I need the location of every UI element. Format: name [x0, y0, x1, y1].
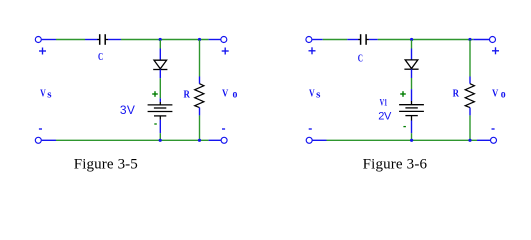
wire (resistor branch top, green)	[469, 40, 471, 77]
label R (resistor)	[184, 89, 191, 101]
wire (diode branch top, green)	[411, 40, 413, 49]
wire (top rail middle, green)	[378, 39, 474, 41]
wire (diode to battery, green)	[159, 78, 161, 98]
wire (resistor to bottom rail, green)	[199, 115, 201, 140]
junction (bottom, diode branch)	[410, 139, 413, 142]
svg-text:V1: V1	[380, 98, 388, 108]
label - (bottom-right)	[492, 128, 495, 130]
wire (battery to bottom rail, green)	[159, 133, 161, 140]
label + (battery positive, green)	[400, 91, 406, 97]
wire (diode branch top, green)	[159, 40, 161, 49]
terminal (top-left, Vs +)	[35, 37, 56, 43]
svg-text:V: V	[309, 87, 315, 99]
wire (diode cathode pin, blue)	[159, 70, 161, 79]
svg-text:3V: 3V	[120, 103, 135, 117]
label - (bottom-left)	[39, 128, 42, 130]
label - (battery negative, green)	[403, 126, 406, 128]
svg-text:C: C	[358, 52, 363, 64]
wire (top rail left, terminal to capacitor)	[56, 39, 85, 41]
wire (resistor top pin, blue)	[199, 77, 201, 84]
svg-text:2V: 2V	[378, 111, 392, 123]
wire (battery top pin, blue)	[159, 98, 161, 102]
label + (top-left)	[309, 47, 316, 54]
wire (capacitor right pin, blue)	[108, 39, 121, 41]
label + (top-right)	[222, 48, 229, 55]
terminal (bottom-right, Vo -)	[221, 137, 227, 143]
wire (top rail middle, cap to output stub)	[121, 39, 209, 41]
node Vs (input label)	[309, 87, 321, 100]
diode D2	[404, 60, 418, 69]
capacitor C2	[358, 34, 369, 45]
junction (bottom, resistor branch)	[468, 139, 471, 142]
wire (top-right terminal pin, blue)	[473, 39, 489, 41]
junction (top, diode branch)	[159, 38, 162, 41]
svg-text:s: s	[316, 88, 321, 100]
wire (resistor bottom pin, blue)	[199, 108, 201, 116]
terminal (bottom-right, Vo -)	[491, 137, 497, 143]
svg-text:Figure 3-6: Figure 3-6	[363, 157, 428, 173]
wire (diode anode pin, blue)	[159, 49, 161, 61]
svg-text:V: V	[222, 87, 228, 99]
wire (diode cathode pin, blue)	[411, 69, 413, 78]
label - (bottom-right)	[222, 128, 225, 130]
resistor R2	[465, 84, 474, 108]
junction (bottom, diode branch)	[159, 139, 162, 142]
label C (capacitor value)	[98, 51, 103, 63]
label + (battery positive, green)	[152, 91, 158, 97]
wire (top rail left, green)	[323, 39, 348, 41]
svg-text:R: R	[453, 87, 460, 99]
wire (capacitor left pin, blue)	[347, 39, 358, 41]
wire (diode to battery, green)	[411, 78, 413, 89]
svg-text:V: V	[492, 87, 498, 99]
label 3V (battery value)	[120, 103, 135, 117]
svg-text:R: R	[184, 89, 191, 101]
wire (resistor branch top, green)	[199, 40, 201, 77]
wire (resistor to bottom rail, green)	[469, 115, 471, 140]
node Vo (output label)	[492, 87, 506, 100]
svg-text:Figure 3-5: Figure 3-5	[74, 157, 138, 173]
caption Figure 3-6	[363, 157, 428, 173]
terminal (top-right, Vo +)	[490, 37, 496, 43]
caption Figure 3-5	[74, 157, 138, 173]
battery V1 (2V source)	[399, 101, 424, 121]
svg-text:C: C	[98, 51, 103, 63]
wire (battery to bottom rail, green)	[411, 133, 413, 140]
junction (top, resistor branch)	[198, 38, 201, 41]
wire (battery bottom pin, blue)	[159, 120, 161, 133]
svg-text:o: o	[501, 89, 506, 101]
label + (top-left)	[39, 48, 46, 55]
node Vs (input label)	[40, 87, 52, 100]
svg-text:o: o	[233, 89, 238, 101]
label 2V (battery value)	[378, 111, 392, 123]
svg-text:V: V	[40, 87, 46, 99]
label V1 (battery refdes)	[380, 98, 388, 108]
label - (bottom-left)	[309, 128, 312, 130]
resistor R1	[195, 84, 204, 108]
wire (battery bottom pin, blue)	[411, 121, 413, 134]
terminal (top-right, Vo +)	[221, 37, 227, 43]
wire (capacitor left pin, blue)	[85, 39, 98, 41]
label + (top-right)	[492, 47, 499, 54]
battery V (3V source)	[148, 102, 173, 120]
wire (capacitor right pin, blue)	[369, 39, 378, 41]
label C (capacitor value)	[358, 52, 363, 64]
wire (diode anode pin, blue)	[411, 49, 413, 60]
terminal (bottom-left, Vs -)	[306, 137, 326, 143]
svg-text:s: s	[47, 88, 52, 100]
capacitor C1	[97, 34, 108, 45]
wire (bottom rail, green)	[327, 139, 478, 141]
node Vo (output label)	[222, 87, 238, 100]
terminal (top-left, Vs +)	[306, 37, 323, 43]
wire (bottom-right terminal pin, blue)	[477, 139, 491, 141]
wire (bottom-right terminal pin, blue)	[209, 139, 222, 141]
wire (bottom rail, green)	[56, 139, 209, 141]
junction (top, resistor branch)	[468, 38, 471, 41]
wire (battery top pin, blue)	[411, 89, 413, 101]
wire (resistor bottom pin, blue)	[469, 108, 471, 116]
junction (top, diode branch)	[410, 38, 413, 41]
wire (resistor top pin, blue)	[469, 77, 471, 84]
terminal (bottom-left, Vs -)	[35, 137, 56, 143]
label - (battery negative, green)	[154, 123, 157, 125]
diode D1	[153, 60, 167, 69]
label R (resistor)	[453, 87, 460, 99]
junction (bottom, resistor branch)	[198, 139, 201, 142]
wire (top-right terminal pin, blue)	[209, 39, 221, 41]
